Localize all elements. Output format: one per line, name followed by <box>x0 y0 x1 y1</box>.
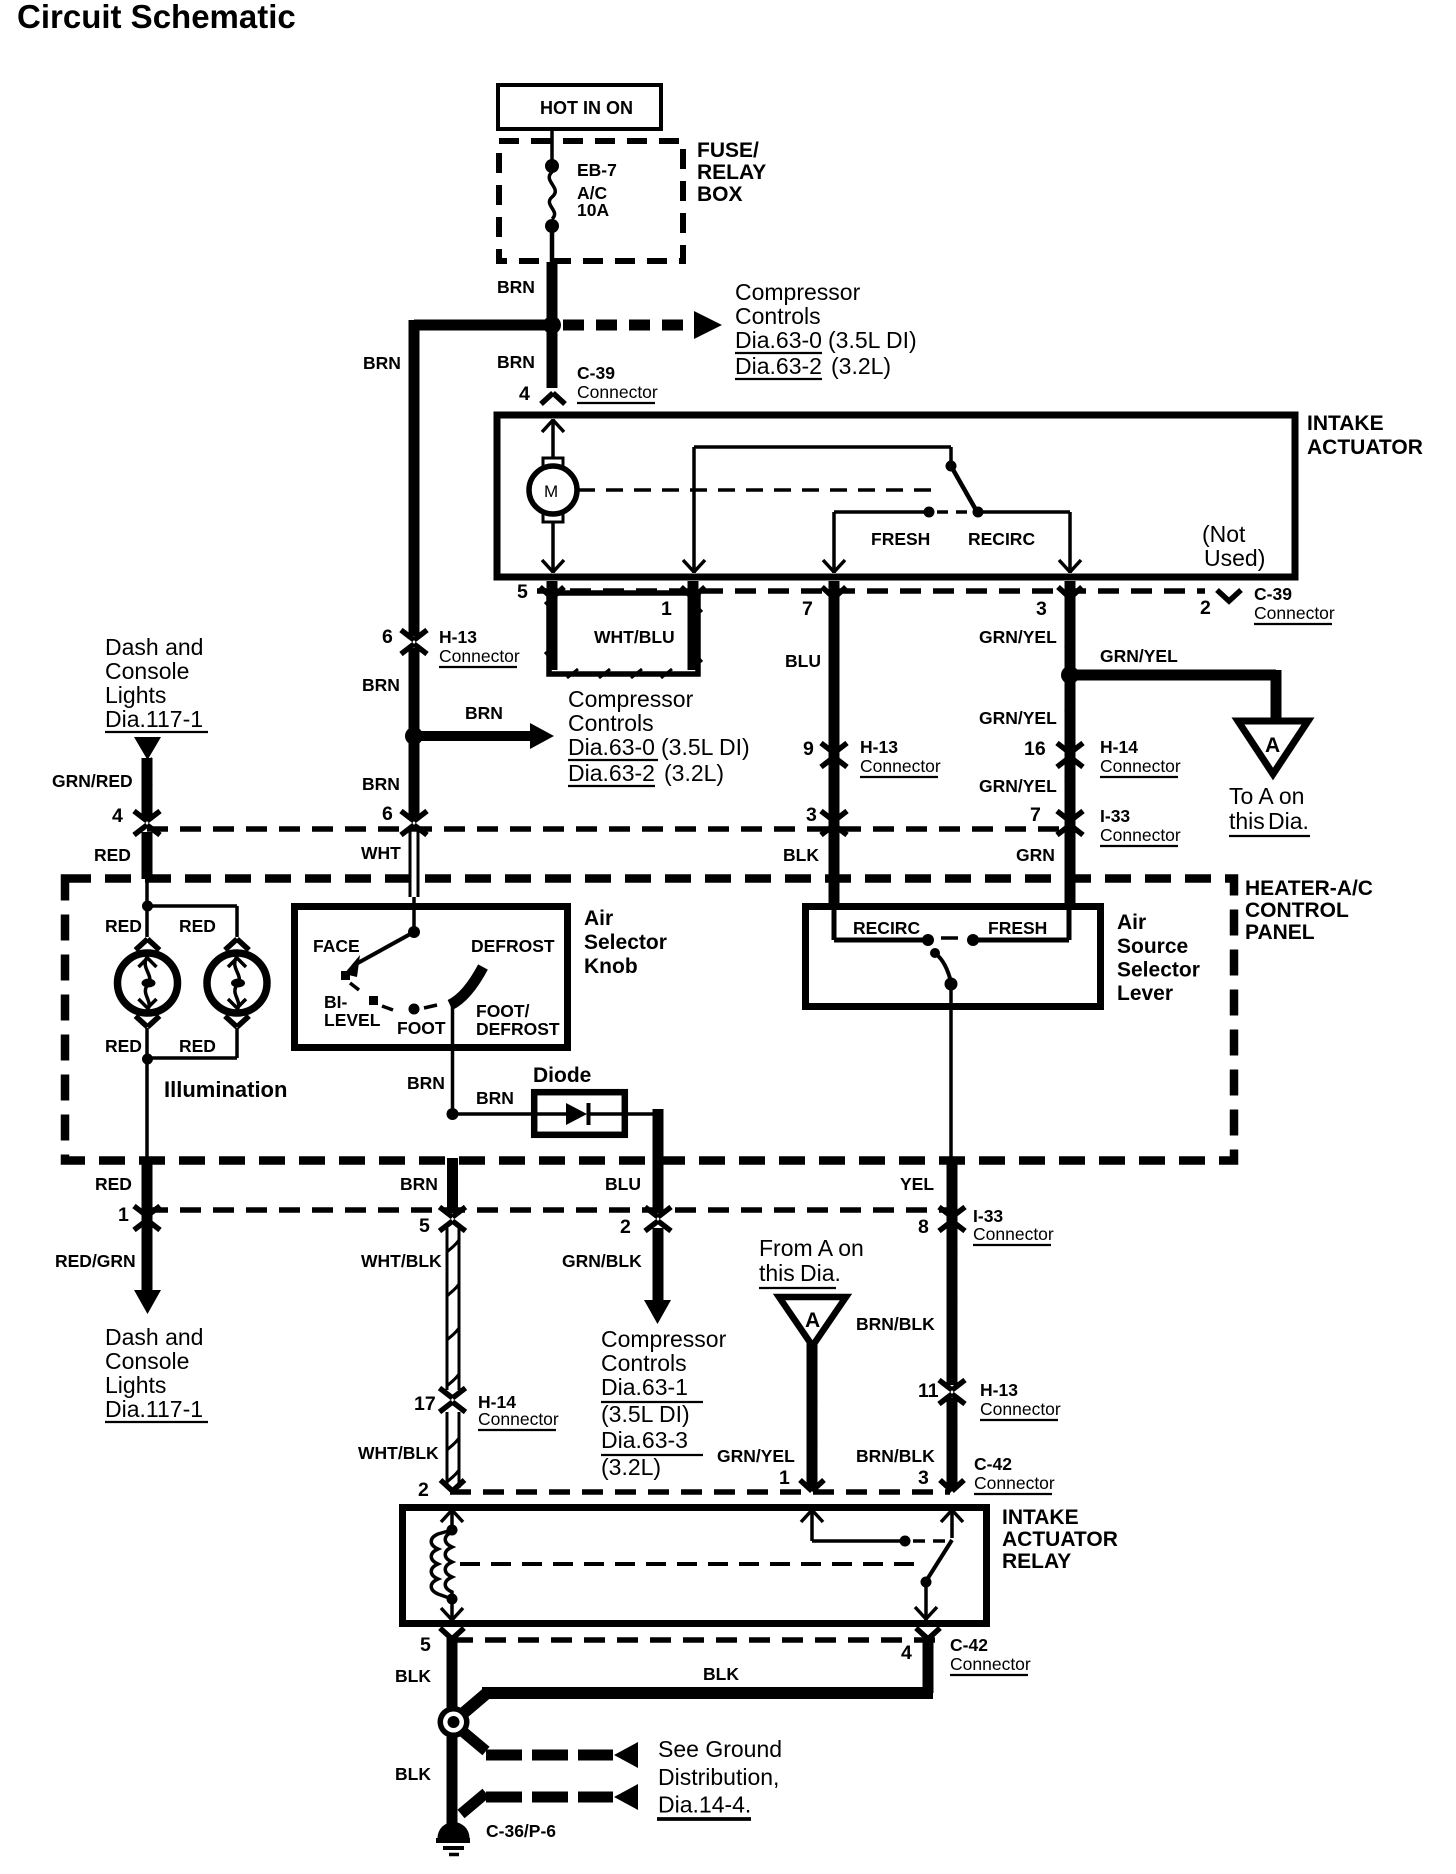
svg-text:Lights: Lights <box>105 1372 166 1398</box>
svg-text:16: 16 <box>1024 738 1046 760</box>
svg-text:Dia.63-0: Dia.63-0 <box>735 327 822 353</box>
svg-text:INTAKE: INTAKE <box>1307 412 1384 435</box>
svg-text:Air: Air <box>1117 911 1146 934</box>
svg-text:RECIRC: RECIRC <box>968 529 1035 549</box>
svg-text:Illumination: Illumination <box>164 1077 287 1102</box>
svg-text:BLU: BLU <box>785 651 821 671</box>
svg-text:C-39: C-39 <box>1254 584 1292 604</box>
svg-text:Connector: Connector <box>980 1399 1061 1419</box>
svg-text:Compressor: Compressor <box>601 1326 727 1352</box>
svg-text:Dia.: Dia. <box>800 1260 841 1286</box>
svg-text:Knob: Knob <box>584 955 638 978</box>
svg-text:RED/GRN: RED/GRN <box>55 1251 136 1271</box>
svg-text:Dia.117-1: Dia.117-1 <box>105 1396 203 1422</box>
svg-text:HOT IN ON: HOT IN ON <box>540 98 633 118</box>
svg-text:3: 3 <box>806 804 817 826</box>
svg-text:9: 9 <box>803 738 814 760</box>
svg-text:Connector: Connector <box>577 382 658 402</box>
svg-text:WHT/BLU: WHT/BLU <box>594 627 675 647</box>
svg-text:7: 7 <box>802 598 813 620</box>
svg-text:Used): Used) <box>1204 545 1265 571</box>
svg-text:Dia.63-2: Dia.63-2 <box>735 353 822 379</box>
svg-text:PANEL: PANEL <box>1245 921 1315 944</box>
svg-text:(3.5L DI): (3.5L DI) <box>601 1401 690 1427</box>
svg-text:RED: RED <box>105 916 142 936</box>
svg-text:BLK: BLK <box>395 1666 431 1686</box>
svg-text:RED: RED <box>94 845 131 865</box>
svg-text:FOOT: FOOT <box>397 1018 446 1038</box>
svg-text:3: 3 <box>918 1467 929 1489</box>
svg-text:Source: Source <box>1117 935 1188 958</box>
svg-text:Connector: Connector <box>1254 603 1335 623</box>
svg-text:5: 5 <box>419 1215 430 1237</box>
svg-text:(Not: (Not <box>1202 521 1246 547</box>
svg-text:INTAKE: INTAKE <box>1002 1506 1079 1529</box>
svg-text:C-36/P-6: C-36/P-6 <box>486 1821 556 1841</box>
svg-text:Connector: Connector <box>478 1409 559 1429</box>
svg-text:I-33: I-33 <box>973 1206 1003 1226</box>
svg-text:Lights: Lights <box>105 682 166 708</box>
svg-text:GRN/YEL: GRN/YEL <box>979 776 1057 796</box>
svg-text:FRESH: FRESH <box>871 529 930 549</box>
svg-text:DEFROST: DEFROST <box>471 936 555 956</box>
svg-text:1: 1 <box>118 1204 129 1226</box>
svg-text:C-39: C-39 <box>577 363 615 383</box>
svg-text:HEATER-A/C: HEATER-A/C <box>1245 877 1373 900</box>
svg-text:CONTROL: CONTROL <box>1245 899 1349 922</box>
svg-text:BLK: BLK <box>703 1664 739 1684</box>
svg-text:BRN: BRN <box>362 774 400 794</box>
svg-text:FUSE/: FUSE/ <box>697 139 759 162</box>
svg-text:YEL: YEL <box>900 1174 934 1194</box>
svg-text:BRN: BRN <box>497 352 535 372</box>
svg-text:ACTUATOR: ACTUATOR <box>1307 436 1423 459</box>
svg-text:BRN: BRN <box>497 277 535 297</box>
svg-text:H-13: H-13 <box>860 737 898 757</box>
svg-text:BRN: BRN <box>400 1174 438 1194</box>
svg-text:11: 11 <box>918 1380 939 1402</box>
svg-text:Console: Console <box>105 658 189 684</box>
svg-text:4: 4 <box>519 383 530 405</box>
svg-text:Circuit Schematic: Circuit Schematic <box>17 0 296 35</box>
svg-text:Dia.63-0: Dia.63-0 <box>568 734 655 760</box>
svg-text:2: 2 <box>620 1216 631 1238</box>
svg-text:Distribution,: Distribution, <box>658 1764 779 1790</box>
svg-text:Selector: Selector <box>584 931 667 954</box>
svg-text:(3.5L DI): (3.5L DI) <box>828 327 917 353</box>
svg-text:RECIRC: RECIRC <box>853 918 920 938</box>
svg-text:Dia.63-3: Dia.63-3 <box>601 1427 688 1453</box>
svg-text:BLK: BLK <box>783 845 819 865</box>
svg-text:A: A <box>805 1309 820 1332</box>
svg-text:this: this <box>1229 808 1265 834</box>
svg-text:GRN/YEL: GRN/YEL <box>979 627 1057 647</box>
svg-text:Dia.63-1: Dia.63-1 <box>601 1374 688 1400</box>
svg-text:Compressor: Compressor <box>735 279 861 305</box>
svg-text:Connector: Connector <box>439 646 520 666</box>
svg-text:8: 8 <box>918 1216 929 1238</box>
svg-text:BRN: BRN <box>363 353 401 373</box>
svg-text:RELAY: RELAY <box>697 161 766 184</box>
svg-text:6: 6 <box>382 803 393 825</box>
svg-text:H-13: H-13 <box>439 627 477 647</box>
svg-text:4: 4 <box>112 805 123 827</box>
svg-text:From A on: From A on <box>759 1235 864 1261</box>
svg-text:GRN: GRN <box>1016 845 1055 865</box>
svg-text:1: 1 <box>661 598 672 620</box>
svg-text:BRN: BRN <box>362 675 400 695</box>
svg-text:5: 5 <box>420 1634 431 1656</box>
svg-text:Compressor: Compressor <box>568 686 694 712</box>
svg-text:(3.2L): (3.2L) <box>831 353 891 379</box>
svg-text:A: A <box>1265 734 1280 757</box>
svg-text:(3.2L): (3.2L) <box>601 1454 661 1480</box>
svg-text:Connector: Connector <box>860 756 941 776</box>
svg-text:Controls: Controls <box>601 1350 687 1376</box>
svg-text:M: M <box>544 482 558 501</box>
svg-text:BRN: BRN <box>465 703 503 723</box>
svg-text:RED: RED <box>105 1036 142 1056</box>
svg-text:See Ground: See Ground <box>658 1736 782 1762</box>
svg-text:Dia.117-1: Dia.117-1 <box>105 706 203 732</box>
svg-text:Diode: Diode <box>533 1064 591 1087</box>
svg-text:Dash and: Dash and <box>105 1324 203 1350</box>
svg-text:I-33: I-33 <box>1100 806 1130 826</box>
svg-text:GRN/BLK: GRN/BLK <box>562 1251 642 1271</box>
svg-text:GRN/YEL: GRN/YEL <box>979 708 1057 728</box>
svg-text:ACTUATOR: ACTUATOR <box>1002 1528 1118 1551</box>
svg-text:17: 17 <box>414 1393 436 1415</box>
svg-text:C-42: C-42 <box>950 1635 988 1655</box>
svg-text:Dash and: Dash and <box>105 634 203 660</box>
svg-text:this: this <box>759 1260 795 1286</box>
svg-text:WHT: WHT <box>361 843 401 863</box>
svg-text:BLU: BLU <box>605 1174 641 1194</box>
svg-text:2: 2 <box>418 1479 429 1501</box>
svg-text:Lever: Lever <box>1117 982 1173 1005</box>
svg-text:RED: RED <box>179 1036 216 1056</box>
svg-text:Dia.: Dia. <box>1268 808 1309 834</box>
svg-text:BRN: BRN <box>407 1073 445 1093</box>
svg-text:BRN/BLK: BRN/BLK <box>856 1446 935 1466</box>
svg-text:3: 3 <box>1036 598 1047 620</box>
svg-text:1: 1 <box>779 1467 790 1489</box>
svg-text:(3.2L): (3.2L) <box>664 760 724 786</box>
svg-text:6: 6 <box>382 626 393 648</box>
svg-text:Console: Console <box>105 1348 189 1374</box>
svg-text:(3.5L DI): (3.5L DI) <box>661 734 750 760</box>
svg-text:GRN/RED: GRN/RED <box>52 771 133 791</box>
svg-text:Dia.63-2: Dia.63-2 <box>568 760 655 786</box>
svg-text:BOX: BOX <box>697 183 743 206</box>
svg-text:Selector: Selector <box>1117 959 1200 982</box>
svg-text:Controls: Controls <box>735 303 821 329</box>
svg-text:GRN/YEL: GRN/YEL <box>717 1446 795 1466</box>
svg-text:H-14: H-14 <box>1100 737 1138 757</box>
svg-text:Controls: Controls <box>568 710 654 736</box>
svg-text:Connector: Connector <box>973 1224 1054 1244</box>
svg-text:FRESH: FRESH <box>988 918 1047 938</box>
svg-text:GRN/YEL: GRN/YEL <box>1100 646 1178 666</box>
svg-text:WHT/BLK: WHT/BLK <box>361 1251 442 1271</box>
svg-text:7: 7 <box>1030 804 1041 826</box>
svg-text:FACE: FACE <box>313 936 360 956</box>
svg-text:4: 4 <box>901 1642 912 1664</box>
svg-text:BLK: BLK <box>395 1764 431 1784</box>
svg-text:EB-7: EB-7 <box>577 160 617 180</box>
svg-text:Connector: Connector <box>1100 825 1181 845</box>
svg-text:H-13: H-13 <box>980 1380 1018 1400</box>
svg-text:RED: RED <box>95 1174 132 1194</box>
svg-text:DEFROST: DEFROST <box>476 1019 560 1039</box>
svg-text:WHT/BLK: WHT/BLK <box>358 1443 439 1463</box>
svg-text:RELAY: RELAY <box>1002 1550 1071 1573</box>
svg-text:To A on: To A on <box>1229 783 1304 809</box>
svg-text:LEVEL: LEVEL <box>324 1010 381 1030</box>
svg-text:Dia.14-4.: Dia.14-4. <box>658 1792 751 1818</box>
svg-text:BRN/BLK: BRN/BLK <box>856 1314 935 1334</box>
svg-text:C-42: C-42 <box>974 1454 1012 1474</box>
svg-text:10A: 10A <box>577 200 609 220</box>
svg-text:Air: Air <box>584 907 613 930</box>
svg-text:Connector: Connector <box>1100 756 1181 776</box>
svg-text:BRN: BRN <box>476 1088 514 1108</box>
svg-text:2: 2 <box>1200 597 1211 619</box>
svg-text:Connector: Connector <box>950 1654 1031 1674</box>
svg-text:FOOT/: FOOT/ <box>476 1001 530 1021</box>
svg-text:5: 5 <box>517 581 528 603</box>
svg-text:RED: RED <box>179 916 216 936</box>
svg-text:Connector: Connector <box>974 1473 1055 1493</box>
svg-text:BI-: BI- <box>324 992 348 1012</box>
